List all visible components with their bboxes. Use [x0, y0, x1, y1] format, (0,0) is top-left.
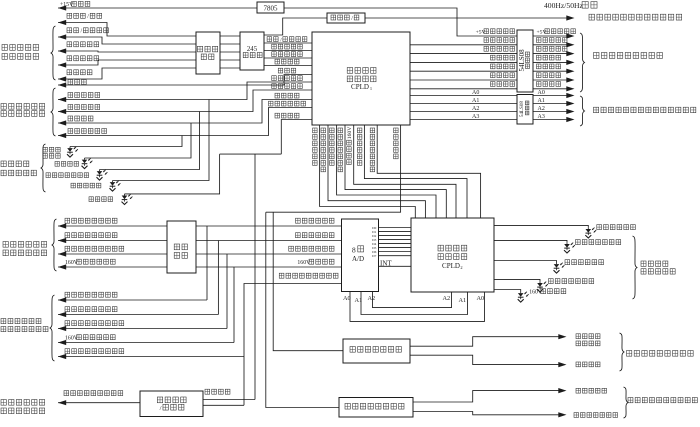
svg-text:A1: A1	[355, 297, 363, 304]
label 反射功率故障 at CPLD1 pin	[269, 101, 274, 106]
svg-text:400Hz/50Hz: 400Hz/50Hz	[544, 1, 584, 10]
wire CPLD1 to driver: 高压断指示	[410, 44, 517, 46]
wire CPLD1 to driver: 天线指示	[410, 79, 517, 81]
regulator U3 7805	[257, 2, 284, 13]
wire sampling output 收集极电压采样输出 to remote box	[58, 356, 244, 358]
label 灯丝欠压故障	[565, 260, 570, 265]
brace group from-remote-box control signals	[51, 26, 56, 80]
LED 光纤故障 wire	[125, 154, 220, 194]
label 阴极脉宽调制信号	[576, 334, 581, 339]
wire input 复位状态 from remote box	[58, 68, 196, 79]
cathode PWM block 阴极脉宽调制器	[343, 339, 410, 363]
wire CPLD1 to driver: 风冷指示	[410, 70, 517, 72]
group text 从发射机内部来的取样信号 (bottom)	[1, 400, 6, 406]
label 高压通指示 (output)	[537, 46, 542, 51]
wire input 低压通/断状态 from remote box	[58, 23, 196, 37]
label 高压断指示 (output)	[537, 38, 542, 43]
svg-text:+15V: +15V	[60, 2, 74, 8]
brace group board fault LEDs (left)	[41, 144, 46, 192]
svg-text:A2: A2	[443, 295, 451, 302]
wire 光纤故障 distribution rail	[220, 153, 282, 155]
wires 245 driver outputs to CPLD1 (4 status lines)	[264, 42, 312, 44]
label 天线/负载状态	[67, 28, 72, 33]
wire sampling input 160V电流采样输入	[58, 266, 167, 268]
vertical label 灯丝欠压故障	[330, 128, 335, 133]
wire driver output 高压断指示 to remote box	[533, 44, 568, 46]
label 天线指示 (output)	[537, 73, 542, 78]
wires address bus A0-A2 between A/D and CPLD2	[373, 292, 452, 308]
LED 160V过流故障	[518, 292, 529, 303]
CPLD U1 control-logic fault-encoder CPLD1	[312, 32, 410, 125]
svg-text:A3: A3	[472, 114, 479, 120]
brace group sampling signals from transmitter	[52, 219, 57, 271]
brace to collector HV supply	[624, 387, 629, 418]
wire driver output +5V热电源指示 to remote box	[533, 35, 568, 37]
wire driver output A3	[533, 119, 568, 121]
wire CPLD1 bottom 收集极电压加上 to CPLD2	[377, 125, 480, 218]
wire CPLD1 to driver: 负载指示	[410, 88, 517, 90]
label 高压通指示 (driver input)	[484, 46, 489, 51]
wire collector voltage optical sampling input	[58, 402, 140, 404]
wire CPLD1 bottom 螺旋线过压故障 to CPLD2	[345, 125, 446, 218]
group text 由发射机送出去遥控盒的指示	[1, 319, 6, 324]
label 预热指示 (driver input)	[491, 55, 496, 60]
label 预热指示 (output)	[537, 55, 542, 60]
svg-text:160V: 160V	[347, 127, 353, 139]
label 天线指示 (driver input)	[491, 73, 496, 78]
vertical label 螺旋线过压故障	[338, 128, 343, 133]
label 高压断状态	[67, 42, 72, 47]
label 阴极电压采样输入	[65, 218, 70, 223]
label 灯丝电压采样 at A/D input	[296, 233, 301, 238]
wire CPLD2 output 160V过流故障	[494, 290, 521, 292]
optical receiver / PLL block 光接受器/锁相环	[140, 391, 203, 417]
svg-text:54LS08: 54LS08	[518, 49, 526, 72]
label 螺旋线电流采样输出	[65, 321, 70, 326]
svg-text:CPLD: CPLD	[442, 262, 460, 270]
wire input 反射功率故障	[58, 108, 312, 136]
driver U2 245驱动器	[240, 32, 264, 70]
wire CPLD1 bottom 阴极电压加上 to CPLD2	[364, 125, 467, 218]
svg-text:A2: A2	[538, 106, 545, 112]
wire 光纤故障 up into CPLD1	[281, 120, 312, 155]
wire branch to indicator LED 行波管过热故障	[100, 112, 200, 170]
label 复位状态	[67, 70, 72, 75]
vertical label 阴极电压加上	[357, 128, 362, 133]
wire CPLD1 to driver: 高压通指示	[410, 53, 517, 55]
wire input 行波管过热	[58, 90, 312, 112]
svg-text:1: 1	[370, 86, 372, 91]
wire CPLD1 fault code A3	[410, 119, 517, 121]
label 行波管过热 at input	[68, 105, 73, 110]
wire enable to collector PWM	[266, 212, 339, 407]
wire 光纤故障 from PLL up to distribution node	[254, 154, 256, 399]
driver U5 54LS08 #2	[517, 95, 533, 125]
label 负载指示 (output)	[537, 82, 542, 87]
label 阴极过压故障	[597, 225, 602, 230]
label 二组合过热 at input	[68, 93, 73, 98]
wire +15V hot supply input	[58, 7, 257, 9]
label 高压通状态	[67, 56, 72, 61]
label 高压断指示 (driver input)	[484, 38, 489, 43]
text 去遥控盒的指示信号	[594, 53, 599, 59]
label 阴极驱动	[576, 362, 581, 367]
vertical label 允许加高压	[394, 128, 399, 133]
label 收集极驱动	[576, 388, 581, 393]
wire driver output 风冷指示 to remote box	[533, 70, 568, 72]
text 去中心机或火控二台的故障编码	[594, 107, 599, 113]
label 收集极脉宽调制	[574, 413, 579, 418]
group text 从遥控盒来的控制信号	[2, 45, 7, 51]
wire sampling output 160V电流采样输出 to remote box	[58, 342, 234, 344]
wire CPLD1 fault code A0	[410, 95, 517, 97]
group text 从发射机内部来的取样信号	[3, 242, 8, 248]
LED 螺旋线过流故障	[537, 281, 548, 292]
brace fault code to central machine	[580, 96, 585, 126]
label 光纤故障	[89, 197, 93, 202]
wire input 二组合过热	[58, 82, 312, 100]
wire sampling input 灯丝电压采样输入	[58, 240, 167, 242]
wire 245 output to low-voltage on/off block	[264, 18, 327, 35]
text 去收集极高压电源驱动	[628, 398, 633, 403]
svg-text:D7: D7	[372, 254, 376, 258]
wire CPLD2 output 螺旋线过流故障	[494, 279, 540, 281]
label 行波管过热 at CPLD1 pin	[272, 84, 277, 89]
LED 二组合过热	[110, 181, 121, 192]
brace group board fault LEDs (right)	[633, 236, 638, 299]
svg-text:A2: A2	[472, 106, 479, 112]
wire branch to indicator LED 重频故障	[85, 123, 192, 158]
wire PLL recovered collector sample output	[203, 404, 244, 406]
label 二组合过热 at CPLD1 pin	[272, 76, 277, 81]
destination text 去低压电源组合控制开关机	[589, 14, 594, 20]
vertical label 收集极过压故障	[321, 128, 326, 133]
label 光纤故障 at CPLD1 pin	[275, 113, 280, 118]
svg-text:CPLD: CPLD	[351, 83, 369, 91]
CPLD U7 timing-control digital-compare CPLD2	[411, 218, 494, 292]
wire sampling input 阴极电压采样输入	[58, 225, 167, 227]
label 螺旋线电流采样输入	[65, 246, 70, 251]
brace indications to remote box	[580, 33, 585, 92]
LED 阴极过压故障	[585, 227, 596, 238]
group text 板子上的故障指示灯 (right)	[641, 261, 646, 266]
wire driver output 天线指示 to remote box	[533, 79, 568, 81]
wire CPLD1 bottom 灯丝欠压故障 to CPLD2	[337, 125, 436, 218]
svg-text:/: /	[160, 405, 162, 412]
label 风冷指示 (driver input)	[491, 64, 496, 69]
wire 400Hz/50Hz control output to low-voltage supply	[365, 17, 568, 19]
wire CPLD2 output 灯丝欠压故障	[494, 261, 557, 263]
vertical label 收集极电压加上	[370, 128, 375, 133]
label 收集极过压故障	[576, 240, 581, 245]
wire cathode PWM output 2 (drive)	[410, 355, 560, 364]
wire input 门开关	[58, 75, 312, 86]
wire input 重频故障	[58, 100, 312, 124]
svg-text:A0: A0	[343, 295, 351, 302]
label 光纤故障 at PLL output	[205, 389, 210, 394]
LED 灯丝欠压故障	[554, 263, 565, 274]
label 重频故障 at input	[68, 116, 73, 121]
wire input 天线/负载状态 from remote box	[58, 37, 196, 44]
block 低压通/断	[327, 13, 365, 23]
wire input 高压通状态 from remote box	[58, 60, 196, 65]
collector PWM block 收集极脉宽调制器	[339, 398, 413, 418]
svg-text:245: 245	[247, 46, 258, 53]
wire cathode PWM output 1 (PWM signal)	[410, 337, 560, 347]
wire INT interrupt	[379, 265, 412, 267]
label 风冷指示 (output)	[537, 64, 542, 69]
wire driver output 负载指示 to remote box	[533, 88, 568, 90]
wire CPLD1 fault code A2	[410, 111, 517, 113]
svg-text:INT: INT	[380, 260, 392, 268]
label 负载指示 (driver input)	[491, 82, 496, 87]
wires debounce to 245 driver (5 lines)	[220, 35, 240, 37]
svg-text:A0: A0	[538, 90, 545, 96]
svg-text:A1: A1	[538, 98, 545, 104]
vertical label 阴极过压故障	[313, 128, 318, 133]
ADC U6 8-bit A/D	[342, 219, 379, 292]
LED 光纤故障	[122, 194, 133, 205]
brace group fault signals from transmitter	[51, 88, 56, 136]
svg-text:A1: A1	[459, 297, 467, 304]
wire sampling output 螺旋线电流采样输出 to remote box	[58, 328, 227, 330]
junction drops from sampling lines to remote outputs	[206, 226, 208, 300]
svg-text:A3: A3	[538, 114, 545, 120]
wire branch to indicator LED 反射功率故障	[70, 136, 182, 147]
wire sampling output 灯丝电压采样输出 to remote box	[58, 314, 218, 316]
wire recovered collector sample up to A/D	[244, 284, 342, 406]
brace to cathode HV supply	[620, 333, 625, 371]
text 去阴极高压电源驱动	[627, 351, 632, 357]
wire driver output A2	[533, 111, 568, 113]
label 阴极电压采样 at A/D input	[296, 218, 301, 223]
svg-text:54LS08: 54LS08	[520, 101, 525, 117]
wire 允许加高压 trunk to PWM modulators	[266, 125, 401, 212]
debounce block 防抖动电路	[196, 32, 220, 74]
svg-text:A2: A2	[368, 295, 376, 302]
wires data bus D0-D7	[379, 227, 412, 229]
label 门开关 at CPLD1 pin	[278, 68, 283, 73]
label 行波管过热故障	[46, 173, 50, 178]
svg-text:A0: A0	[472, 90, 479, 96]
wire CPLD1 fault code A1	[410, 103, 517, 105]
wire CPLD2 output 收集极过压故障	[494, 240, 567, 242]
svg-text:A0: A0	[477, 295, 485, 302]
svg-text:2: 2	[460, 265, 462, 270]
wire CPLD1 bottom 阴极过压故障 to CPLD2	[320, 125, 416, 218]
label 收集极电压采样输入 (bottom)	[64, 391, 69, 396]
label 灯丝电压采样输入	[65, 233, 70, 238]
label 收集极电压采样输入 at A/D pin	[279, 273, 284, 278]
wire driver output 预热指示 to remote box	[533, 61, 568, 63]
label 门开关 at input	[68, 80, 73, 85]
label 反射功率故障 at input	[68, 129, 73, 134]
wire collector PWM output 2 (PWM)	[413, 412, 560, 415]
wire branch to indicator LED 二组合过热	[113, 100, 210, 181]
svg-text:A/D: A/D	[352, 255, 364, 263]
svg-text:A1: A1	[472, 98, 479, 104]
label 螺旋线过流故障	[549, 279, 554, 284]
wire sampling input 螺旋线电流采样输入	[58, 253, 167, 255]
wire sampling output 阴极电压采样输出 to remote box	[58, 299, 207, 301]
LED 行波管过热故障	[97, 170, 108, 181]
op-amp block 差分运放	[167, 221, 196, 273]
wire 7805 +5V output to 54LS08 driver input	[284, 8, 517, 36]
svg-text:8: 8	[352, 245, 356, 254]
wire driver output A1	[533, 103, 568, 105]
label 收集极电压采样输出	[65, 349, 70, 354]
wire CPLD1 to driver: 预热指示	[410, 61, 517, 63]
wire CPLD1 bottom 160V过压故障 to CPLD2	[354, 125, 456, 218]
label 低压通/断状态	[67, 13, 72, 18]
label 重频故障	[55, 162, 59, 167]
label 反射功率故障 (2 lines)	[43, 147, 47, 152]
LED 收集极过压故障	[564, 242, 575, 253]
wire PLL fiber-fault output	[203, 399, 255, 401]
wire driver output 高压通指示 to remote box	[533, 53, 568, 55]
LED 反射功率故障	[67, 147, 78, 158]
wire enable to cathode PWM	[273, 212, 343, 351]
group text 从发射机内部来的故障信号	[1, 104, 6, 110]
wire input 高压断状态 from remote box	[58, 51, 196, 52]
wire collector PWM output 1 (drive)	[413, 391, 560, 402]
label 螺旋线电流采样 at A/D input	[289, 246, 294, 251]
wires diff-amp outputs to A/D	[196, 225, 342, 227]
group text 板子上的故障指示灯	[1, 161, 6, 167]
wire CPLD1 bottom 收集极过压故障 to CPLD2	[328, 125, 425, 218]
LED 重频故障	[82, 158, 93, 169]
label 灯丝电压采样输出	[65, 307, 70, 312]
label 重频故障 at CPLD1 pin	[275, 93, 280, 98]
label 二组合过热	[71, 183, 75, 188]
wire driver output A0	[533, 95, 568, 97]
driver U4 54LS08 #1	[517, 30, 533, 92]
svg-text:7805: 7805	[264, 5, 279, 13]
wire CPLD2 output 阴极过压故障	[494, 225, 588, 227]
brace group outputs to remote box	[50, 295, 55, 361]
label 阴极电压采样输出	[65, 292, 70, 297]
